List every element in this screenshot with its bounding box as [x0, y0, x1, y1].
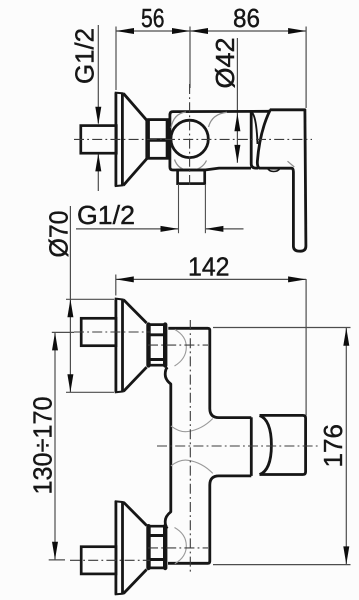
svg-text:176: 176 — [318, 424, 348, 468]
svg-text:142: 142 — [188, 251, 230, 281]
svg-text:Ø42: Ø42 — [210, 38, 240, 89]
svg-text:G1/2: G1/2 — [70, 28, 100, 84]
svg-text:56: 56 — [141, 3, 165, 33]
svg-text:Ø70: Ø70 — [44, 211, 74, 258]
svg-text:G1/2: G1/2 — [77, 200, 135, 230]
svg-text:130÷170: 130÷170 — [28, 397, 58, 495]
svg-text:86: 86 — [233, 3, 260, 33]
